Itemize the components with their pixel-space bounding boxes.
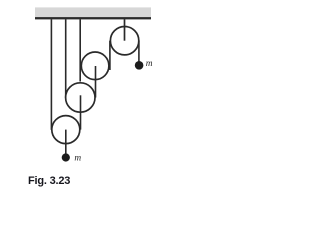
pulley P1 (bottom movable pulley): [52, 116, 80, 144]
wire: string from P2 axle down to right tangent of P1: [80, 95, 82, 129]
wire: string 2 ceiling to left tangent of P2: [65, 19, 67, 97]
wire: string right tangent of P3 up to left tangent of P4: [109, 41, 111, 70]
wire: string 3 ceiling to left tangent of P3: [79, 19, 81, 81]
wire: string right tangent of P4 down to mass m (right): [138, 41, 140, 62]
svg-text:Fig. 3.23: Fig. 3.23: [28, 175, 70, 187]
wire: string from P1 axle down to mass m (left): [65, 130, 67, 154]
pulley P4 (fixed pulley on ceiling): [110, 27, 138, 55]
mass m ball (left): [62, 153, 70, 161]
wire: string from P3 axle down to right tangent of P2: [95, 66, 97, 98]
pulley P2 (second movable pulley): [66, 83, 95, 112]
wire: string 1 ceiling to left tangent of P1: [50, 19, 52, 130]
ceiling slab: [35, 7, 151, 17]
svg-text:m: m: [74, 154, 81, 164]
ceiling underline: [35, 17, 151, 19]
pulley P3 (third movable pulley): [81, 52, 109, 80]
mass m ball (right): [135, 61, 144, 70]
wire: support rod from ceiling to P4 axle: [124, 19, 126, 40]
svg-text:m: m: [146, 59, 153, 69]
